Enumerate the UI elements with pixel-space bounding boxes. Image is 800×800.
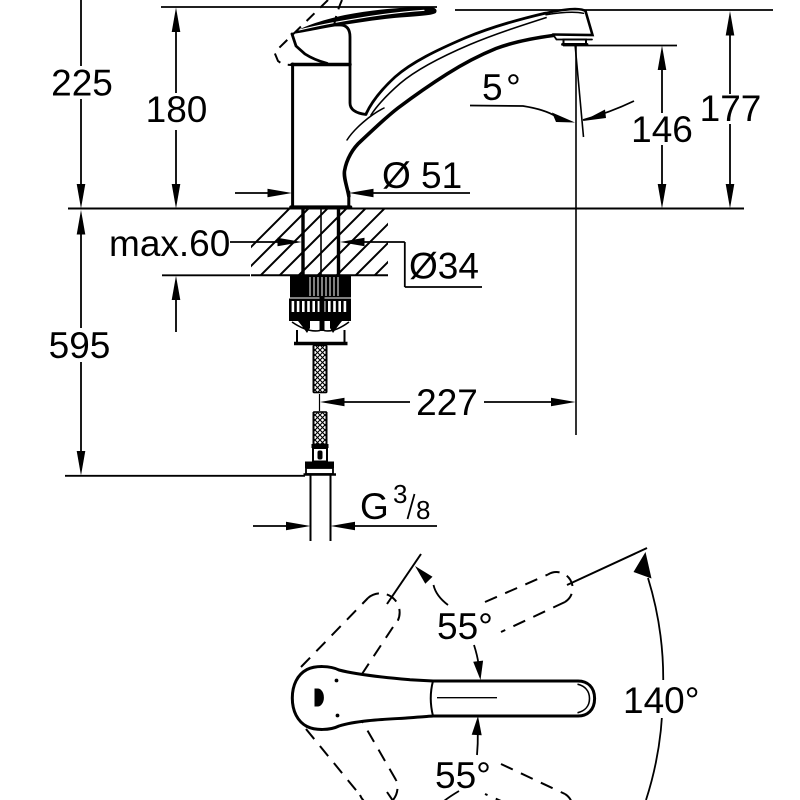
threaded shank tubes bbox=[301, 209, 304, 276]
braided hose upper bbox=[314, 346, 327, 393]
svg-text:227: 227 bbox=[416, 382, 478, 423]
dimension 595 bbox=[49, 210, 305, 476]
body dome front bbox=[292, 34, 327, 63]
extension line top right (spout head top, 177) bbox=[455, 9, 773, 11]
svg-text:3: 3 bbox=[393, 479, 407, 509]
svg-text:140°: 140° bbox=[623, 680, 700, 721]
dimension G 3/8 bbox=[253, 479, 437, 530]
dashed raised lever bbox=[275, 0, 329, 65]
dimension 177 bbox=[700, 11, 762, 209]
dimension 180 bbox=[146, 8, 208, 209]
dashed spout up bbox=[485, 575, 548, 603]
claw washer bbox=[289, 297, 351, 333]
svg-text:225: 225 bbox=[51, 63, 113, 104]
cartridge neck top and right bbox=[336, 25, 366, 115]
radial line 140 bbox=[567, 548, 647, 585]
dots bbox=[335, 679, 339, 683]
aerator step bbox=[553, 35, 592, 40]
tilted water stream line (5°) bbox=[575, 44, 584, 137]
svg-text:55°: 55° bbox=[437, 606, 493, 647]
radial line 55 up bbox=[387, 554, 421, 604]
svg-text:177: 177 bbox=[700, 88, 762, 129]
root joint line (underside inner) bbox=[347, 108, 384, 140]
base right edge bbox=[347, 192, 350, 207]
dimension 225 bbox=[51, 0, 113, 209]
separator arc bbox=[431, 681, 433, 716]
braided hose lower bbox=[314, 412, 327, 444]
spout end cap inner line bbox=[578, 684, 590, 713]
base left edge bbox=[291, 64, 294, 207]
counter top line bbox=[68, 208, 744, 210]
svg-text:°: ° bbox=[506, 67, 521, 108]
connector nipple bbox=[313, 448, 327, 462]
dimension 146 bbox=[563, 46, 693, 209]
dimension 227 bbox=[320, 382, 576, 423]
svg-text:Ø 51: Ø 51 bbox=[382, 155, 462, 196]
5 degree annotation bbox=[470, 67, 634, 123]
handle D-slot bbox=[315, 689, 324, 707]
counter slab hatching bbox=[218, 208, 442, 280]
vertical reference line from aerator bbox=[575, 44, 577, 435]
svg-text:5: 5 bbox=[482, 67, 503, 108]
dimension Ø51 bbox=[235, 155, 470, 197]
hex nut bbox=[304, 462, 337, 475]
G3/8 pipe bbox=[310, 476, 312, 542]
dimension Ø34 bbox=[230, 238, 482, 287]
svg-text:max.60: max.60 bbox=[109, 223, 230, 264]
svg-text:Ø34: Ø34 bbox=[409, 246, 479, 287]
svg-text:595: 595 bbox=[49, 325, 111, 366]
svg-text:55°: 55° bbox=[435, 755, 491, 796]
dimension max.60 bbox=[109, 223, 250, 332]
spout underside bbox=[344, 36, 553, 197]
serrated ring bbox=[289, 299, 351, 313]
dashed handle up 55 bbox=[301, 598, 368, 667]
dashed spout down bbox=[501, 764, 565, 794]
svg-text:146: 146 bbox=[631, 109, 693, 150]
svg-text:180: 180 bbox=[146, 89, 208, 130]
hose break center line bbox=[319, 394, 321, 411]
base bottom thick bbox=[291, 205, 351, 209]
hose end cap bbox=[312, 444, 329, 448]
center hose line bbox=[320, 209, 322, 276]
dashed handle down 55 bbox=[306, 729, 360, 795]
mounting bracket bbox=[294, 330, 348, 344]
lever blade (filled) bbox=[292, 7, 437, 34]
aerator bbox=[564, 40, 587, 45]
extension line top (lever top, 180) bbox=[161, 6, 437, 8]
spout top edge bbox=[366, 13, 545, 114]
spout inner top line bbox=[371, 17, 548, 115]
radial line 55 down bbox=[387, 792, 421, 800]
svg-text:8: 8 bbox=[416, 495, 430, 525]
mounting nut (knurled) bbox=[290, 276, 351, 298]
svg-text:G: G bbox=[360, 486, 389, 527]
140 deg label and arc bbox=[646, 578, 663, 800]
centerline bbox=[437, 697, 497, 699]
spout head bbox=[545, 9, 593, 35]
solid handle + spout outline bbox=[292, 667, 594, 730]
neck bottom thick edge bbox=[292, 63, 350, 66]
